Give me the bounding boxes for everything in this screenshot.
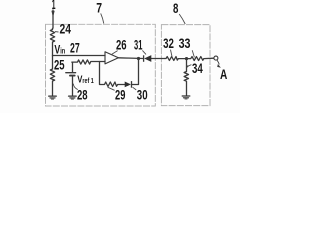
svg-text:32: 32 xyxy=(163,36,174,51)
svg-text:31: 31 xyxy=(134,37,143,52)
svg-text:8: 8 xyxy=(173,1,179,16)
svg-text:in: in xyxy=(60,46,65,56)
svg-text:26: 26 xyxy=(116,37,127,52)
svg-text:34: 34 xyxy=(192,61,203,76)
svg-text:1: 1 xyxy=(52,0,56,12)
svg-text:30: 30 xyxy=(137,88,148,103)
svg-text:33: 33 xyxy=(179,36,191,51)
svg-text:25: 25 xyxy=(54,57,65,72)
svg-text:A: A xyxy=(220,67,227,82)
svg-text:27: 27 xyxy=(70,41,80,56)
svg-text:7: 7 xyxy=(96,1,102,16)
svg-text:ref 1: ref 1 xyxy=(82,78,93,85)
svg-text:28: 28 xyxy=(77,88,88,103)
svg-text:29: 29 xyxy=(115,87,125,102)
svg-text:24: 24 xyxy=(60,22,72,37)
